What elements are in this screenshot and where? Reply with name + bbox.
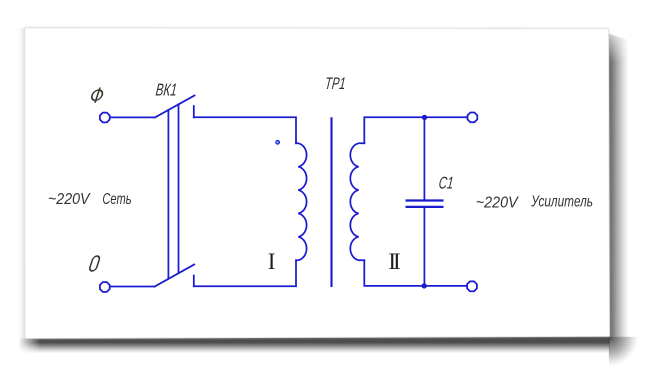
wire: secondary winding top to terminal X3 (through node A)	[364, 117, 467, 143]
switch BK1 top pole blade	[155, 96, 195, 118]
terminal X3 (top-right)	[468, 113, 478, 123]
svg-text:ВК1: ВК1	[155, 80, 178, 100]
svg-text:С1: С1	[438, 174, 455, 193]
svg-text:~220V: ~220V	[48, 191, 91, 208]
transformer TP1 core	[330, 118, 332, 286]
secondary winding II of transformer TP1	[350, 143, 364, 260]
terminal X1 (phase, top-left)	[100, 113, 110, 123]
switch BK1 mechanical link line right	[178, 104, 180, 273]
switch BK1 mechanical link line left	[167, 110, 169, 279]
capacitor C1 top lead	[423, 117, 425, 200]
label F (phase)	[90, 88, 105, 103]
svg-text:ТР1: ТР1	[324, 74, 346, 93]
switch BK1 bottom pole blade	[155, 265, 195, 287]
terminal X4 (bottom-right)	[467, 281, 477, 291]
node B: junction of secondary bottom wire and capacitor C1	[422, 283, 427, 288]
primary winding I of transformer TP1	[296, 143, 307, 260]
wire: switch BK1 top contact to primary winding top	[194, 117, 296, 143]
svg-text:Усилитель: Усилитель	[530, 193, 593, 210]
wire: primary winding bottom to switch BK1 bottom contact	[194, 260, 296, 286]
wire: terminal X1 to switch pivot	[110, 116, 155, 118]
svg-text:I: I	[268, 249, 276, 274]
switch BK1 bottom fixed contact stub	[193, 276, 195, 287]
switch BK1 top fixed contact stub	[193, 106, 195, 117]
svg-text:~220V: ~220V	[476, 194, 519, 211]
terminal X2 (neutral, bottom-left)	[100, 282, 110, 292]
wire: bottom terminal to switch pivot	[110, 286, 155, 288]
svg-text:Сеть: Сеть	[102, 191, 131, 208]
wire: secondary winding bottom to terminal X4 (through node B)	[364, 260, 466, 286]
capacitor C1 bottom plate	[407, 206, 443, 208]
winding start polarity dot	[275, 140, 280, 145]
capacitor C1 bottom lead	[423, 208, 425, 286]
label 0 (neutral)	[89, 256, 101, 271]
node A: junction of secondary top wire and capacitor C1	[422, 115, 427, 120]
capacitor C1 top plate	[407, 199, 443, 201]
